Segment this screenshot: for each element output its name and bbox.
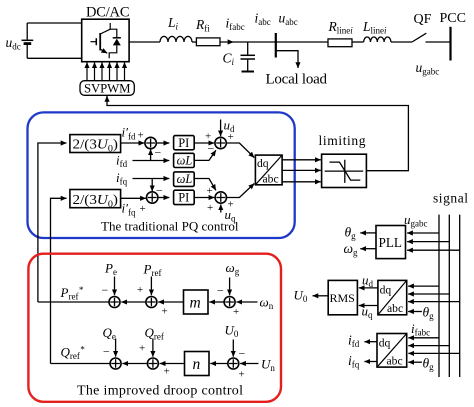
svg-text:SVPWM: SVPWM bbox=[84, 82, 131, 96]
svg-text:dq: dq bbox=[379, 336, 391, 349]
theta_g into current dq bbox=[408, 361, 422, 363]
svg-text:ωg: ωg bbox=[344, 241, 359, 258]
wire J4 to dq/abc bbox=[227, 184, 255, 198]
battery plate short bbox=[24, 42, 32, 45]
svg-text:The improved droop control: The improved droop control bbox=[77, 384, 243, 399]
svg-text:+: + bbox=[228, 131, 234, 143]
svg-text:−: − bbox=[102, 283, 109, 297]
svg-text:Qref*: Qref* bbox=[61, 345, 85, 362]
svg-text:+: + bbox=[162, 306, 168, 318]
switch QF bbox=[412, 33, 426, 42]
battery plate long bbox=[22, 39, 34, 41]
svg-text:QF: QF bbox=[414, 12, 432, 27]
svg-text:Local load: Local load bbox=[266, 72, 328, 88]
wire bbox=[276, 41, 328, 43]
svg-text:i′fd: i′fd bbox=[122, 125, 136, 142]
svg-text:Pref: Pref bbox=[143, 262, 162, 279]
svg-text:uabc: uabc bbox=[279, 11, 298, 28]
inductor L_line bbox=[364, 37, 391, 42]
main ac wire bbox=[129, 41, 160, 43]
svg-text:−: − bbox=[208, 142, 215, 156]
signal bus line a bbox=[438, 215, 440, 377]
feedback wire from limiting to SVPWM bbox=[107, 96, 408, 171]
capacitor C_i bbox=[247, 42, 249, 71]
dq/abc transform block bbox=[255, 155, 282, 185]
svg-text:+: + bbox=[139, 343, 145, 355]
BLUE BOX : traditional PQ control bbox=[28, 112, 295, 238]
wire i_fd into wL1 bbox=[133, 160, 170, 162]
omega_g output bbox=[360, 248, 376, 250]
dc source u_dc wires bbox=[27, 23, 81, 58]
svg-text:ifq: ifq bbox=[116, 170, 128, 187]
branch i_fd up into J1 bbox=[150, 149, 152, 160]
u_q wire to RMS bbox=[359, 305, 378, 307]
svg-text:+: + bbox=[233, 306, 239, 318]
signal bus line b bbox=[448, 215, 450, 377]
U_0 output of RMS bbox=[313, 295, 329, 297]
gain block m bbox=[184, 290, 209, 314]
IGBT inside converter bbox=[91, 23, 121, 58]
wire P1 output to left riser bbox=[38, 301, 109, 303]
svg-text:PLL: PLL bbox=[379, 235, 402, 250]
wire with current arrow i_fabc bbox=[220, 41, 276, 43]
svg-text:i′fq: i′fq bbox=[122, 201, 136, 218]
svg-text:+: + bbox=[207, 185, 213, 197]
svg-text:ugabc: ugabc bbox=[416, 60, 440, 77]
wire Q3 to n bbox=[210, 363, 228, 365]
summing junction Q1 bbox=[110, 358, 121, 369]
svg-text:ωL: ωL bbox=[177, 172, 193, 186]
wire bbox=[391, 41, 412, 43]
wire wL2 diagonal to J4 bbox=[194, 179, 216, 191]
svg-text:m: m bbox=[190, 295, 201, 312]
wire J2 to PI2 bbox=[158, 197, 169, 199]
u_q input arrow bbox=[220, 204, 222, 212]
svg-text:Un: Un bbox=[261, 357, 275, 374]
u_d wire to RMS bbox=[359, 287, 378, 289]
summing junction J2 bbox=[147, 192, 158, 203]
svg-text:iabc: iabc bbox=[255, 11, 271, 28]
summing junction Q2 bbox=[147, 358, 158, 369]
svg-text:ifq: ifq bbox=[348, 353, 360, 370]
svg-text:Qref: Qref bbox=[145, 325, 164, 342]
svg-text:−: − bbox=[217, 284, 224, 298]
svg-text:θg: θg bbox=[423, 305, 435, 322]
i_fq output bbox=[364, 361, 377, 363]
svg-text:Qe: Qe bbox=[103, 325, 116, 342]
wire gain to junction J1 bbox=[121, 142, 145, 144]
wL block upper bbox=[174, 153, 195, 167]
svg-text:Rfi: Rfi bbox=[195, 17, 210, 34]
summing junction P3 bbox=[224, 297, 235, 308]
svg-text:PCC: PCC bbox=[440, 11, 466, 26]
SVPWM block bbox=[80, 81, 134, 96]
svg-text:limiting: limiting bbox=[319, 133, 366, 148]
theta_g output bbox=[360, 232, 376, 234]
current dq inputs bbox=[408, 337, 439, 339]
svg-text:θg: θg bbox=[423, 356, 435, 373]
resistor R_line bbox=[328, 39, 352, 47]
wire n to Q2 bbox=[160, 363, 185, 365]
svg-text:−: − bbox=[155, 146, 162, 160]
IGBT emitter arrow bbox=[100, 49, 107, 53]
wire P3 to m bbox=[209, 301, 224, 303]
local load branch bbox=[276, 51, 298, 68]
dq/abc block for voltage bbox=[378, 280, 407, 314]
svg-text:The traditional PQ control: The traditional PQ control bbox=[101, 218, 239, 233]
wire Q2 to Q1 bbox=[122, 363, 147, 365]
converter box DC/AC bbox=[82, 19, 129, 62]
summing junction J4 bbox=[215, 192, 226, 203]
svg-text:n: n bbox=[193, 356, 201, 373]
wire J1 to PI1 bbox=[156, 142, 169, 144]
wire wL1 diagonal to J3 bbox=[194, 150, 216, 160]
summing junction P2 bbox=[146, 297, 157, 308]
gate drive arrows bbox=[87, 62, 125, 80]
svg-text:+: + bbox=[164, 366, 170, 378]
svg-text:+: + bbox=[137, 284, 143, 296]
summing junction J3 bbox=[215, 137, 226, 148]
svg-text:Ci: Ci bbox=[223, 51, 235, 68]
RED BOX : improved droop control bbox=[28, 254, 281, 402]
wire bbox=[192, 41, 196, 43]
svg-text:ωg: ωg bbox=[226, 260, 240, 277]
node bar u_abc bbox=[275, 33, 277, 58]
wire gain2 to J2 bbox=[121, 197, 146, 199]
wire Q1 output to left riser bbox=[51, 363, 111, 365]
svg-text:ifd: ifd bbox=[116, 153, 128, 170]
svg-text:+: + bbox=[140, 203, 146, 215]
resistor R_fi bbox=[196, 38, 220, 46]
svg-text:+: + bbox=[239, 369, 245, 381]
svg-text:U0: U0 bbox=[225, 323, 239, 340]
svg-text:+: + bbox=[228, 199, 234, 211]
IGBT diode triangle bbox=[113, 39, 121, 46]
wire Q_ref* to gain block bbox=[51, 198, 67, 363]
wire P_ref* to gain block bbox=[38, 143, 67, 302]
wire J3 to dq/abc bbox=[226, 143, 254, 158]
svg-text:dq: dq bbox=[380, 283, 392, 296]
wire PI1 to J3 bbox=[194, 142, 214, 144]
i_fd output bbox=[364, 341, 377, 343]
svg-text:abc: abc bbox=[387, 302, 403, 315]
svg-text:−: − bbox=[103, 345, 110, 359]
PI block upper bbox=[174, 136, 195, 150]
svg-text:Rlinei: Rlinei bbox=[328, 19, 354, 36]
svg-text:ud: ud bbox=[362, 273, 374, 290]
svg-text:signal: signal bbox=[433, 191, 468, 206]
gain block n bbox=[185, 352, 210, 376]
wire PI2 to J4 bbox=[194, 197, 214, 199]
signal bus line c bbox=[459, 215, 461, 377]
svg-text:Li: Li bbox=[167, 15, 179, 32]
inductor L_i bbox=[160, 36, 192, 42]
svg-text:PI: PI bbox=[178, 191, 189, 205]
dq/abc block for current bbox=[377, 334, 407, 368]
svg-text:ifd: ifd bbox=[348, 333, 360, 350]
PI block lower bbox=[174, 190, 195, 204]
summing junction Q3 bbox=[228, 358, 239, 369]
voltage dq inputs bbox=[408, 285, 439, 287]
svg-text:ugabc: ugabc bbox=[404, 212, 428, 229]
svg-text:ifabc: ifabc bbox=[226, 16, 245, 33]
svg-text:RMS: RMS bbox=[330, 291, 355, 305]
RMS block bbox=[328, 280, 357, 314]
wire i_fq into wL2 bbox=[133, 178, 170, 180]
gain block 2/(3U0) lower bbox=[70, 190, 121, 208]
bus bar PCC bbox=[449, 27, 451, 61]
svg-text:dq: dq bbox=[257, 157, 269, 170]
svg-text:ωL: ωL bbox=[177, 153, 193, 167]
svg-text:θg: θg bbox=[345, 225, 357, 242]
wire P2 to P1 bbox=[121, 301, 146, 303]
svg-text:PI: PI bbox=[178, 136, 189, 150]
svg-text:ifabc: ifabc bbox=[411, 321, 430, 338]
svg-text:DC/AC: DC/AC bbox=[86, 5, 130, 21]
svg-text:Pref*: Pref* bbox=[60, 285, 84, 302]
svg-text:+: + bbox=[207, 202, 213, 214]
theta_g into voltage dq bbox=[408, 311, 422, 313]
svg-text:+: + bbox=[138, 130, 144, 142]
svg-text:U0: U0 bbox=[294, 288, 308, 305]
svg-text:ωn: ωn bbox=[260, 295, 274, 312]
svg-text:Pe: Pe bbox=[104, 261, 117, 278]
PLL block bbox=[376, 226, 406, 259]
PLL inputs bbox=[407, 232, 439, 234]
wire bbox=[352, 41, 364, 43]
svg-text:−: − bbox=[239, 347, 246, 361]
three wires dq/abc to limiting bbox=[282, 159, 321, 161]
svg-text:abc: abc bbox=[387, 355, 403, 368]
svg-text:abc: abc bbox=[263, 172, 279, 185]
summing junction J1 bbox=[145, 137, 156, 148]
svg-text:udc: udc bbox=[6, 35, 21, 52]
gain block 2/(3U0) upper bbox=[70, 135, 121, 153]
branch i_fq down into J2 bbox=[151, 179, 153, 192]
u_d input arrow bbox=[220, 120, 222, 137]
svg-text:Llinei: Llinei bbox=[362, 19, 387, 36]
summing junction P1 bbox=[109, 297, 120, 308]
wire m to P2 bbox=[158, 301, 183, 303]
wL block lower bbox=[174, 172, 195, 187]
